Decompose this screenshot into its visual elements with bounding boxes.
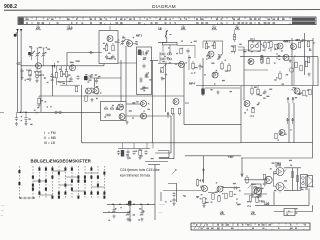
AM antenna	[166, 31, 172, 38]
capacitor C24	[186, 49, 189, 54]
band legend	[44, 131, 57, 145]
trimmer C3	[41, 48, 45, 57]
wire osc out right	[150, 60, 158, 62]
wire AF left column	[161, 184, 177, 203]
wire main AM bus y112	[17, 111, 101, 113]
capacitor C30	[198, 64, 201, 71]
varicap arrows	[287, 97, 289, 103]
wire coil drops	[160, 45, 170, 64]
wire output links	[274, 166, 287, 193]
capacitor C52	[172, 198, 175, 203]
svg-text:TR7: TR7	[228, 155, 234, 159]
ferrite rod L5	[163, 43, 178, 45]
resistor R48	[257, 86, 259, 96]
dial scale bar frame	[18, 17, 316, 25]
scale label 20	[36, 25, 42, 30]
trimmer blob	[28, 52, 31, 55]
switch actuator arrow	[19, 197, 35, 200]
svg-text:MF1: MF1	[136, 34, 142, 38]
resistor R65	[203, 198, 205, 205]
capacitor C14	[95, 79, 98, 84]
wire long vertical x184	[183, 64, 185, 125]
svg-text:26: 26	[235, 26, 239, 30]
svg-text:III = LB: III = LB	[44, 141, 56, 145]
svg-text:908.2: 908.2	[4, 4, 17, 10]
capacitor C21	[15, 113, 18, 121]
resistor R43	[307, 41, 309, 47]
resistor R51	[309, 89, 311, 95]
ground P1	[112, 215, 115, 219]
resistor R71	[256, 197, 258, 203]
svg-text:·—: ·—	[1, 209, 5, 212]
pot arrow AF	[172, 170, 176, 175]
wire vertical x189	[188, 55, 190, 70]
fuse box	[284, 209, 295, 216]
wire fuse right	[274, 205, 313, 211]
svg-text:114: 114	[67, 26, 73, 30]
wire emitter rail y81.5	[57, 82, 81, 86]
wire main FM bus	[21, 64, 104, 66]
wire vertical x294 upper	[293, 57, 295, 86]
wire vertical x289	[288, 103, 290, 143]
coil in can1	[106, 114, 110, 116]
capacitor C17	[111, 55, 114, 60]
resistor R54	[275, 133, 277, 139]
wire vertical x294	[293, 103, 295, 143]
switch horizontal links	[33, 171, 105, 195]
ground below C21	[15, 122, 18, 126]
switch left dashed column	[19, 166, 21, 199]
resistor R2	[36, 69, 38, 79]
wire feedback y194	[244, 193, 267, 195]
ground below C9	[20, 76, 23, 80]
svg-text:1M: 1M	[185, 101, 189, 105]
resistor R11	[112, 43, 114, 51]
ground TR13	[216, 91, 219, 95]
ground AF	[202, 204, 205, 208]
wire y85 right	[196, 85, 318, 87]
wire y124.6 top of box	[184, 124, 241, 126]
tone pot P3	[140, 205, 144, 217]
resistor R56	[139, 150, 141, 156]
margin tick	[0, 111, 4, 113]
resistor R72	[246, 175, 248, 184]
capacitor C9	[20, 69, 23, 77]
resistor R63	[225, 193, 227, 199]
IF can T1 tall	[137, 47, 152, 95]
wire vertical x241	[240, 86, 242, 143]
tone pot P1	[112, 205, 116, 214]
tone pot P2	[126, 211, 130, 216]
svg-text:—: —	[1, 214, 4, 217]
resistor R34	[221, 61, 223, 70]
wire y88	[205, 87, 240, 89]
resistor R3	[55, 66, 57, 85]
AF label 28	[220, 211, 225, 215]
coil dots on bus2	[55, 111, 58, 114]
resistor R35	[228, 63, 230, 72]
resistor R5	[65, 66, 67, 85]
resistor R13	[38, 96, 40, 104]
resistor R44	[307, 57, 309, 63]
wire hang ticks	[123, 143, 154, 149]
diode D3	[110, 107, 114, 110]
svg-text:465: 465	[295, 38, 300, 42]
note text C24	[120, 168, 160, 178]
wire antenna feed right	[20, 31, 22, 112]
svg-text:18: 18	[158, 27, 162, 31]
transistor TR20	[279, 130, 285, 136]
wire y63 link	[118, 62, 137, 64]
transistor TR12	[173, 99, 179, 105]
resistor R15	[75, 86, 77, 92]
wire vertical x244	[243, 47, 245, 100]
detector diode blob	[121, 150, 124, 157]
coil L9	[167, 58, 171, 60]
svg-text:29: 29	[251, 211, 255, 215]
resistor R42	[298, 42, 300, 48]
cap in can T1 lower	[142, 86, 145, 91]
coil L6	[161, 53, 165, 55]
junction dots tone	[112, 204, 114, 206]
switch wafer columns	[33, 166, 105, 199]
wire AM antenna down	[158, 37, 167, 42]
wire vertical x318	[317, 57, 319, 86]
driver transformer T4	[252, 184, 261, 197]
svg-text:kan trimmes til max.: kan trimmes til max.	[120, 174, 151, 178]
resistor R70	[249, 196, 251, 203]
audio enclosure bottom y158	[241, 157, 313, 159]
capacitor C13	[76, 75, 79, 80]
wire IF rail y40.5	[248, 40, 313, 42]
wire tone y213	[103, 212, 130, 214]
wire stub y47	[238, 46, 244, 48]
transistor TR19	[244, 101, 250, 107]
resistor R41b	[275, 44, 277, 50]
ground detector row	[126, 156, 129, 160]
varicap arrows lower	[287, 118, 289, 124]
coil in can T1	[140, 51, 143, 55]
transistor TR5	[93, 88, 99, 94]
transistor TR8	[141, 101, 147, 107]
wire vertical x312.5	[312, 86, 314, 158]
scale label 18	[181, 25, 187, 30]
resistor R67	[296, 176, 298, 182]
resistor R8	[85, 96, 87, 102]
wire tone x130	[129, 200, 131, 222]
svg-text:24: 24	[212, 26, 216, 30]
trimmer C2	[35, 48, 39, 57]
junction dots bus2	[20, 112, 22, 114]
wire antenna feed left	[17, 31, 19, 112]
ground can1	[125, 121, 128, 125]
wire box bottom y157.7	[158, 151, 169, 158]
resistor R1	[29, 69, 31, 78]
trimmer C18	[120, 40, 124, 45]
label TR8	[275, 162, 281, 166]
transistor TR2	[70, 65, 76, 71]
svg-text:—·—: —·—	[159, 203, 165, 206]
transistor TR9	[141, 113, 147, 119]
diode D2	[104, 107, 108, 110]
wire vertical x121	[120, 60, 122, 102]
wire y96 rail	[39, 95, 184, 97]
wire can1 out top	[126, 103, 141, 105]
svg-text:—·: —·	[159, 211, 163, 214]
resistor R20	[180, 48, 182, 54]
wire vertical x94.6	[94, 78, 96, 87]
wire into driver	[244, 179, 267, 181]
coil L8	[167, 53, 171, 55]
capacitor C51	[172, 192, 175, 197]
wire box bottom y158 right	[159, 113, 174, 159]
resistor R49	[279, 71, 281, 80]
resistor R10	[105, 43, 107, 51]
tone blob	[128, 201, 131, 206]
svg-text:126: 126	[264, 202, 270, 206]
ground mixer	[90, 98, 93, 102]
capacitor C46	[144, 150, 147, 155]
wire TR9 down	[273, 192, 275, 206]
svg-text:MF4: MF4	[189, 82, 195, 86]
resistor R64	[230, 191, 232, 197]
scale label 26	[235, 25, 241, 30]
wire y52.5 link	[67, 53, 102, 66]
scale label 24	[212, 25, 218, 30]
wire tone y204	[107, 203, 155, 205]
svg-text:C24 fjernes hvis C15 ikke: C24 fjernes hvis C15 ikke	[120, 168, 160, 172]
svg-text:I = FM: I = FM	[44, 131, 56, 135]
wire x165.5 down	[165, 64, 167, 112]
wire y142.6	[82, 142, 313, 144]
resistor R45	[261, 55, 263, 65]
svg-text:20: 20	[36, 26, 40, 30]
transistor TR23 output upper	[276, 168, 284, 176]
capacitor C12	[69, 77, 72, 82]
AM section box	[177, 46, 195, 59]
transistor TR26	[254, 187, 261, 194]
transistor TR1	[36, 63, 42, 69]
resistor R29	[192, 61, 194, 70]
resistor R57	[305, 61, 307, 67]
transistor TR11	[179, 62, 185, 68]
resistor R60	[196, 179, 198, 187]
volume pot P4	[248, 184, 252, 189]
capacitor C32 blob	[201, 89, 204, 95]
resistor R32	[178, 108, 180, 115]
arrow at x168	[167, 112, 169, 118]
FM antenna	[14, 29, 23, 37]
capacitor C40	[263, 90, 266, 95]
capacitor in can T1	[142, 64, 145, 69]
speaker	[307, 176, 313, 187]
wire y63.5 link	[158, 63, 184, 65]
wire osc cluster drops	[203, 41, 223, 55]
svg-text:BØLGELÆNGDEOMSKIFTER: BØLGELÆNGDEOMSKIFTER	[31, 159, 91, 164]
ground near R28	[160, 77, 163, 81]
transistor TR14	[277, 43, 283, 49]
ground below C22	[24, 122, 27, 126]
coil blob	[138, 50, 141, 56]
pot arrow R28	[162, 64, 166, 69]
resistor R56b	[300, 65, 302, 71]
resistor R50	[303, 90, 305, 96]
wire IF rail y56.7	[240, 56, 318, 58]
wire y155.8	[185, 155, 241, 157]
component value label specks	[34, 71, 36, 72]
wire vertical x304	[304, 33, 306, 75]
resistor R46	[267, 58, 269, 64]
trimmer C26	[217, 55, 221, 60]
ground right column	[307, 73, 310, 77]
resistor R4	[60, 66, 62, 77]
wire between AF transistors	[208, 188, 240, 193]
transistor TR18	[294, 88, 300, 94]
junction dot bus/feed	[52, 65, 54, 67]
wire y70 stub	[244, 69, 268, 71]
capacitor C53	[199, 179, 204, 182]
capacitor C50	[233, 186, 238, 189]
transistor TR24 output lower	[276, 183, 284, 191]
wire trim link	[118, 40, 137, 44]
ground P3	[140, 218, 143, 222]
capacitor C45	[132, 150, 135, 155]
output transformer T5	[301, 174, 308, 187]
capacitor C11 on link	[89, 51, 94, 54]
wire down to y96	[52, 66, 54, 96]
transistor TR17	[283, 55, 289, 61]
wire vertical x292	[291, 38, 293, 86]
svg-text:2k2: 2k2	[247, 204, 252, 208]
resistor R61	[212, 194, 214, 200]
wire can1 out bottom	[126, 115, 171, 117]
wire long vertical x203	[202, 58, 204, 96]
wire y148.5	[118, 148, 150, 150]
diode D2 blob	[84, 76, 88, 80]
wire vertical x126	[125, 46, 127, 102]
svg-text:MF2: MF2	[284, 40, 291, 44]
coil L1	[17, 62, 21, 64]
transistor TR6	[118, 104, 124, 110]
trimmer in can T1 lower	[144, 73, 148, 78]
svg-text:II = MB: II = MB	[44, 136, 57, 140]
dial pointer line	[109, 26, 111, 31]
transistor TR4 mixer	[86, 88, 92, 94]
resistor R55	[295, 62, 297, 68]
ground TR17	[288, 59, 291, 63]
resistor R31	[171, 108, 173, 115]
wire AF base rail	[163, 190, 201, 192]
ground TR26	[256, 195, 259, 199]
wire trimmer leads to bus	[32, 57, 44, 66]
wire x41 down	[40, 70, 42, 112]
osc cluster box	[203, 40, 223, 42]
junction dot x244	[243, 51, 245, 53]
wire x155 down	[154, 165, 156, 221]
scale label 114	[67, 25, 73, 30]
resistor R23	[213, 41, 215, 48]
transistor TR16	[248, 59, 254, 65]
wire audio frame	[284, 168, 301, 191]
svg-text:MF1: MF1	[250, 37, 256, 41]
transistor TR7	[119, 114, 125, 120]
resistor R28	[161, 67, 163, 73]
transistor TR21	[202, 186, 208, 192]
header rule	[4, 9, 320, 12]
svg-text:2k2: 2k2	[250, 114, 255, 118]
wire audio bottom rail	[255, 189, 309, 206]
capacitor C16	[105, 55, 108, 60]
svg-text:TR8: TR8	[275, 162, 281, 166]
ground AF left	[172, 202, 175, 206]
transistor TR3	[107, 36, 113, 42]
resistor R25	[233, 30, 235, 42]
svg-text:DIAGRAM: DIAGRAM	[152, 4, 176, 10]
ground below R13	[37, 104, 40, 108]
transistor TR3b	[127, 41, 133, 47]
resistor R62	[218, 196, 220, 202]
wire y164	[148, 164, 160, 166]
IF can 2	[249, 41, 261, 51]
transistor TR25 driver	[265, 176, 272, 183]
IF can 1 box	[101, 102, 127, 121]
oscillator shield box	[99, 31, 118, 64]
resistor R40	[264, 41, 266, 52]
wire x242 arrow down	[241, 158, 243, 177]
svg-text:28: 28	[220, 211, 224, 215]
label 29	[251, 211, 256, 215]
svg-text:18: 18	[181, 26, 185, 30]
resistor R41	[270, 41, 272, 52]
ground below R1	[28, 78, 31, 82]
resistor R53	[252, 107, 254, 113]
ground P2	[126, 218, 129, 222]
capacitor C47	[117, 150, 120, 155]
bottom scale bar	[191, 223, 310, 230]
resistor R47	[251, 86, 253, 96]
transistor TR13	[212, 72, 218, 78]
trimmer in can T1	[144, 51, 148, 56]
svg-text:·—: ·—	[1, 204, 5, 207]
coil L7	[161, 58, 165, 60]
ground below R2	[35, 79, 38, 83]
trimmer C1	[29, 48, 33, 57]
wire vertical x313	[312, 38, 314, 86]
coupling parts left	[263, 174, 265, 180]
capacitor C44	[126, 150, 129, 155]
transistor TR22	[217, 186, 223, 192]
capacitor C22	[24, 113, 27, 121]
wire stub y50	[238, 49, 250, 51]
wire vertical x171	[155, 116, 171, 153]
wire x203 down with arrow	[203, 156, 205, 183]
ground detector row 2	[138, 156, 141, 160]
resistor R22	[205, 41, 207, 49]
wire y78	[88, 77, 121, 79]
transistor TR10	[208, 51, 214, 57]
resistor R66	[291, 172, 293, 178]
wire y161.5	[145, 161, 168, 163]
wire FM section down-feed	[81, 85, 83, 143]
wire vertical x152	[152, 61, 154, 143]
diode D1	[54, 63, 56, 68]
resistor R26	[233, 46, 235, 54]
coil small	[289, 68, 293, 72]
coil2 in can T1	[140, 78, 142, 82]
transistor TR15	[291, 44, 297, 50]
